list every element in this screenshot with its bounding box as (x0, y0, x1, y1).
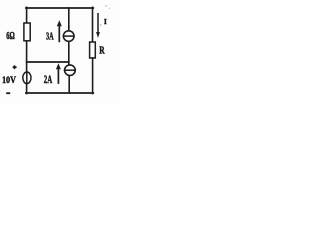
voltage source internal bar (26, 72, 28, 83)
arrow for 2A source current (up) (56, 63, 61, 84)
svg-text:2A: 2A (44, 74, 53, 86)
voltage source circle (10V) (23, 72, 31, 84)
wire middle branch lower (2A source to bottom edge) (68, 76, 70, 93)
svg-text:R: R (99, 46, 105, 57)
label plus sign of source (13, 65, 17, 69)
current source 3A internal bar (64, 35, 74, 37)
arrow for current I (down, right branch) (96, 13, 100, 38)
current source 3A circle (63, 31, 74, 42)
scan speck (100, 24, 101, 25)
svg-text:6Ω: 6Ω (6, 31, 15, 42)
scan speck (105, 5, 106, 6)
svg-text:I: I (104, 18, 107, 26)
wire middle branch mid (3A source to junction to 2A source) (68, 41, 70, 65)
current source 2A circle (65, 65, 76, 76)
wire middle branch upper (top edge to 3A source) (68, 8, 70, 31)
wire middle horizontal (left branch to middle branch junction) (27, 61, 69, 63)
wire bottom edge (26, 92, 93, 94)
wire left edge upper (top corner to 6-ohm resistor) (26, 7, 28, 23)
resistor 6-ohm box (24, 23, 30, 41)
arrow for 3A source current (up) (57, 20, 62, 42)
label minus sign of source (6, 92, 10, 94)
wire left edge lower (voltage source to bottom corner) (26, 84, 28, 94)
current source 2A internal bar (65, 69, 76, 71)
wire top edge (26, 7, 93, 9)
scan speck (109, 8, 110, 9)
wire right edge lower (R to bottom corner) (92, 58, 94, 94)
wire right edge upper (top corner to R) (92, 7, 94, 42)
svg-text:3A: 3A (46, 32, 54, 43)
svg-text:10V: 10V (2, 76, 16, 86)
wire left edge middle (6-ohm to voltage source) (26, 41, 28, 72)
resistor R box (90, 42, 96, 58)
